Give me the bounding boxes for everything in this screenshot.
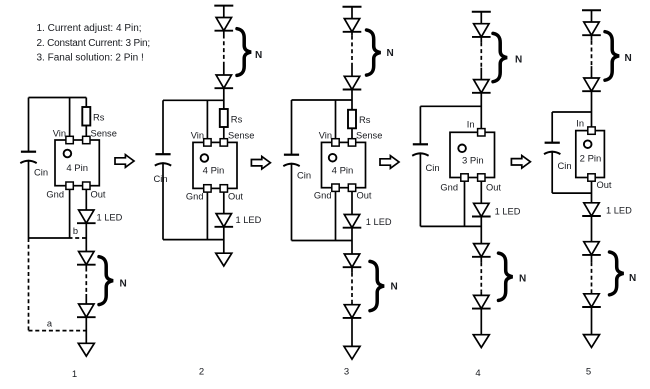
svg-text:1 LED: 1 LED bbox=[606, 206, 632, 216]
wire: C3 LED to lower chain bbox=[351, 228, 353, 254]
svg-text:N: N bbox=[120, 279, 127, 290]
wire: C3 Out pin to LED bbox=[351, 192, 353, 215]
wire: C2 stub to LED2 bbox=[223, 63, 225, 75]
wire: C5 LED1 stub bbox=[591, 35, 593, 41]
svg-text:Out: Out bbox=[91, 190, 106, 200]
svg-text:N: N bbox=[629, 273, 636, 284]
wire: C1 LED2 stub bbox=[85, 265, 87, 268]
ground (C2) bbox=[216, 253, 232, 266]
svg-text:In: In bbox=[467, 120, 475, 130]
wire: C2 Vin drop bbox=[206, 100, 208, 142]
wire: C1 Rs top lead bbox=[85, 98, 87, 108]
svg-text:Out: Out bbox=[228, 192, 243, 202]
capacitor Cin bbox=[154, 154, 172, 184]
svg-text:Rs: Rs bbox=[359, 114, 371, 125]
LED D9 (1 LED, C3) bbox=[343, 215, 362, 228]
wire: C5 top rail bbox=[552, 111, 591, 113]
wire: dashed tap at node a (C1) bbox=[29, 330, 87, 332]
wire: C4 LED2 to In pin bbox=[480, 93, 482, 133]
power input terminal (C2) bbox=[214, 5, 233, 7]
wire: C5 LED stub lower bbox=[591, 255, 593, 262]
svg-text:Gnd: Gnd bbox=[46, 190, 64, 200]
wire: C3 Rs to Sense pin bbox=[351, 128, 353, 142]
svg-text:Cin: Cin bbox=[297, 170, 311, 181]
svg-text:Cin: Cin bbox=[426, 162, 440, 173]
wire: C3 ground return rail bbox=[292, 240, 353, 242]
brace N LEDs bottom (C4) bbox=[499, 253, 513, 300]
svg-text:Vin: Vin bbox=[319, 130, 332, 140]
svg-text:N: N bbox=[255, 50, 262, 61]
flow arrow 3-4 bbox=[380, 156, 399, 169]
svg-text:4 Pin: 4 Pin bbox=[332, 166, 354, 177]
wire: C4 ground return rail bbox=[420, 225, 481, 227]
wire: C4 Cin bottom lead bbox=[419, 152, 421, 226]
LED D10 (C3) bbox=[343, 254, 362, 267]
wire: C2 Out pin to LED bbox=[223, 192, 225, 213]
power input terminal (C3) bbox=[343, 6, 362, 8]
svg-text:5: 5 bbox=[586, 367, 591, 378]
LED D20 (C5) bbox=[582, 242, 601, 255]
ground (C1) bbox=[78, 343, 94, 356]
resistor Rs (C2) bbox=[220, 109, 243, 127]
svg-text:3 Pin: 3 Pin bbox=[462, 156, 484, 167]
wire: C5 Cin top lead bbox=[551, 112, 553, 143]
op-amp U3: 4 Pin regulator (C3) bbox=[322, 139, 366, 192]
svg-text:Gnd: Gnd bbox=[186, 192, 204, 202]
capacitor Cin bbox=[412, 144, 439, 173]
wire: C1 Cin top lead bbox=[28, 98, 30, 152]
wire: C3 stub to LED2 bbox=[351, 63, 353, 76]
wire: C1 LED1 to LED2 bbox=[85, 223, 87, 251]
wire: C4 LED stub lower bbox=[480, 257, 482, 263]
wire: C3 LED stub lower bbox=[351, 267, 353, 272]
flow arrow 4-5 bbox=[511, 156, 530, 169]
LED D12 (C4) bbox=[472, 24, 491, 37]
svg-text:Vin: Vin bbox=[53, 129, 66, 139]
svg-text:N: N bbox=[391, 282, 398, 293]
wire: C2 Cin top lead bbox=[162, 100, 164, 154]
svg-text:Sense: Sense bbox=[356, 130, 382, 140]
wire: C3 LED1 stub bbox=[351, 32, 353, 36]
wire: C4 Cin top lead bbox=[419, 106, 421, 144]
svg-text:N: N bbox=[519, 273, 526, 284]
wire: dashed feedback left leg (C1) bbox=[28, 238, 30, 331]
LED D2 (C1) bbox=[77, 252, 96, 265]
svg-text:Rs: Rs bbox=[231, 114, 243, 125]
svg-text:Gnd: Gnd bbox=[314, 191, 332, 201]
wire: C4 stub to LED2 bbox=[480, 68, 482, 80]
svg-text:b: b bbox=[73, 226, 78, 236]
LED D14 (1 LED, C4) bbox=[472, 203, 491, 216]
capacitor Cin bbox=[544, 143, 572, 171]
power input terminal (C4) bbox=[472, 11, 491, 13]
op-amp U4: 3 Pin regulator (C4) bbox=[450, 129, 495, 182]
wire: C3 Gnd pin to return rail bbox=[335, 192, 337, 241]
wire: C5 LED to lower chain bbox=[591, 216, 593, 242]
svg-text:2 Pin: 2 Pin bbox=[580, 154, 602, 165]
brace N LEDs top (C4) bbox=[493, 33, 507, 81]
svg-text:1 LED: 1 LED bbox=[495, 207, 521, 217]
wire: C4 LED to ground bbox=[480, 309, 482, 335]
wire: C2 LED1 stub bbox=[223, 31, 225, 35]
svg-text:a: a bbox=[47, 318, 53, 328]
wire: C1 Gnd pin to return rail bbox=[69, 190, 71, 238]
brace N LEDs (C1) bbox=[99, 257, 113, 305]
resistor Rs (C3) bbox=[348, 110, 371, 129]
wire: C1 stub to LED3 bbox=[85, 294, 87, 304]
brace N LEDs (C2) bbox=[237, 29, 251, 76]
wire: C3 LED to ground bbox=[351, 318, 353, 347]
svg-text:Sense: Sense bbox=[91, 129, 117, 139]
LED D4 (C2) bbox=[215, 18, 234, 31]
wire: C2 LED to ground bbox=[223, 227, 225, 253]
wire: C4 input to LED1 bbox=[480, 12, 482, 24]
flow arrow 2-3 bbox=[251, 156, 270, 169]
flow arrow 1-2 bbox=[115, 155, 134, 168]
svg-text:4 Pin: 4 Pin bbox=[203, 166, 225, 177]
op-amp U1: 4 Pin regulator (C1) bbox=[55, 136, 99, 189]
LED D21 (C5) bbox=[582, 294, 601, 307]
svg-text:4: 4 bbox=[475, 368, 480, 379]
LED D6 (1 LED, C2) bbox=[215, 214, 234, 227]
LED D17 (C5) bbox=[582, 22, 601, 35]
svg-text:Out: Out bbox=[486, 183, 501, 193]
capacitor Cin bbox=[283, 155, 311, 181]
wire: C3 dashed lower chain bbox=[351, 273, 353, 302]
wire: C4 Out pin to LED bbox=[480, 182, 482, 204]
wire: C1 Cin bottom lead bbox=[28, 160, 30, 238]
svg-text:3: 3 bbox=[344, 367, 349, 378]
wire: C1 LED3 to ground bbox=[85, 317, 87, 343]
wire: C4 stub to lower LED bbox=[480, 291, 482, 295]
wire: C4 Gnd pin to return rail bbox=[464, 182, 466, 227]
wire: C4 top rail bbox=[420, 105, 481, 107]
wire: C5 dashed lower chain bbox=[591, 262, 593, 289]
power input terminal (C5) bbox=[582, 9, 601, 11]
svg-text:Cin: Cin bbox=[154, 173, 168, 184]
wire: C3 input to LED1 bbox=[351, 7, 353, 19]
wire: C5 Out pin to LED bbox=[591, 182, 593, 203]
wire: C3 Cin top lead bbox=[291, 100, 293, 155]
wire: C3 LED2 to Rs junction bbox=[351, 90, 353, 110]
wire: C3 stub to lower LED bbox=[351, 302, 353, 305]
ground (C4) bbox=[473, 335, 489, 348]
LED D13 (C4) bbox=[472, 80, 491, 93]
svg-text:2. Constant Current: 3 Pin;: 2. Constant Current: 3 Pin; bbox=[37, 38, 151, 49]
svg-text:Cin: Cin bbox=[558, 160, 572, 171]
wire: C4 LED1 stub bbox=[480, 37, 482, 42]
wire: C1 Out pin to LED bbox=[85, 190, 87, 210]
wire: C5 LED2 to In pin bbox=[591, 91, 593, 130]
svg-text:1: 1 bbox=[72, 369, 77, 380]
wire: C2 Rs to Sense pin bbox=[223, 127, 225, 142]
capacitor Cin bbox=[20, 152, 48, 178]
svg-text:2: 2 bbox=[199, 367, 204, 378]
svg-text:1 LED: 1 LED bbox=[366, 217, 392, 227]
wire: C3 top rail bbox=[292, 99, 353, 101]
svg-text:1 LED: 1 LED bbox=[97, 213, 123, 223]
wire: dashed tap at node b (C1) bbox=[75, 237, 86, 239]
wire: C2 Gnd pin to return rail bbox=[206, 192, 208, 239]
brace N LEDs top (C5) bbox=[605, 32, 619, 80]
wire: C5 dashed chain segment bbox=[591, 41, 593, 66]
wire: C2 LED2 to Rs junction bbox=[223, 88, 225, 109]
wire: C5 input to LED1 bbox=[591, 10, 593, 22]
wire: C3 Cin bottom lead bbox=[291, 163, 293, 241]
LED D19 (1 LED, C5) bbox=[582, 203, 601, 216]
wire: C1 dashed LED chain segment bbox=[85, 268, 87, 295]
wire: C2 Cin bottom lead bbox=[162, 162, 164, 239]
ground (C3) bbox=[344, 346, 360, 359]
wire: C5 Cin bottom lead bbox=[551, 151, 553, 193]
svg-text:Out: Out bbox=[357, 191, 372, 201]
brace N LEDs bottom (C5) bbox=[610, 252, 624, 295]
resistor Rs (C1) bbox=[82, 107, 104, 126]
wire: C3 dashed chain segment bbox=[351, 36, 353, 63]
wire: C4 dashed lower chain bbox=[480, 262, 482, 291]
wire: C4 LED to lower chain bbox=[480, 217, 482, 244]
svg-text:N: N bbox=[387, 48, 394, 59]
op-amp U2: 4 Pin regulator (C2) bbox=[193, 139, 237, 192]
LED D8 (C3) bbox=[343, 76, 362, 89]
svg-text:Gnd: Gnd bbox=[440, 183, 458, 193]
op-amp U5: 2 Pin regulator (C5) bbox=[576, 127, 605, 181]
svg-text:4 Pin: 4 Pin bbox=[66, 163, 88, 174]
svg-text:Rs: Rs bbox=[93, 112, 105, 123]
wire: C5 ground return rail bbox=[552, 192, 591, 194]
brace N LEDs top (C3) bbox=[367, 30, 381, 75]
wire: C1 Rs to Sense pin bbox=[85, 126, 87, 143]
svg-text:1 LED: 1 LED bbox=[236, 215, 262, 225]
LED D16 (C4) bbox=[472, 295, 491, 308]
wire: C5 stub to LED2 bbox=[591, 66, 593, 78]
LED D11 (C3) bbox=[343, 305, 362, 318]
svg-text:N: N bbox=[625, 53, 632, 64]
wire: C2 top rail bbox=[163, 99, 224, 101]
LED D18 (C5) bbox=[582, 78, 601, 91]
wire: C1 top rail bbox=[29, 97, 87, 99]
LED D5 (C2) bbox=[215, 75, 234, 88]
wire: C2 dashed chain segment bbox=[223, 35, 225, 64]
svg-text:Out: Out bbox=[597, 180, 612, 190]
svg-text:Sense: Sense bbox=[228, 130, 254, 140]
svg-text:N: N bbox=[515, 54, 522, 65]
wire: C2 input to LED1 bbox=[223, 6, 225, 18]
wire: C2 ground return rail bbox=[163, 239, 224, 241]
LED D1 (1 LED, C1) bbox=[77, 210, 96, 223]
LED D3 (C1) bbox=[77, 304, 96, 317]
wire: C1 ground return rail bbox=[29, 237, 73, 239]
svg-text:3. Fanal solution: 2 Pin !: 3. Fanal solution: 2 Pin ! bbox=[37, 53, 144, 64]
wire: C1 Vin stub bbox=[69, 98, 71, 141]
LED D7 (C3) bbox=[343, 19, 362, 32]
brace N LEDs bottom (C3) bbox=[370, 261, 384, 310]
LED D15 (C4) bbox=[472, 244, 491, 257]
ground (C5) bbox=[584, 335, 600, 348]
svg-text:1. Current adjust: 4 Pin;: 1. Current adjust: 4 Pin; bbox=[37, 23, 142, 34]
wire: C5 stub to lower LED bbox=[591, 289, 593, 294]
wire: C4 dashed chain segment bbox=[480, 42, 482, 67]
svg-text:Cin: Cin bbox=[34, 167, 48, 178]
svg-text:Vin: Vin bbox=[191, 130, 204, 140]
svg-text:In: In bbox=[576, 119, 584, 129]
wire: C3 Vin drop bbox=[335, 100, 337, 142]
wire: C5 LED to ground bbox=[591, 307, 593, 335]
